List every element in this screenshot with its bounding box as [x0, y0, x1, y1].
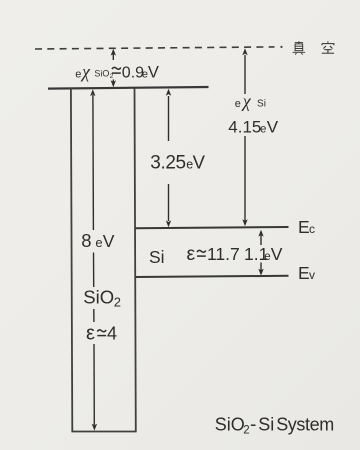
svg-text:2: 2	[110, 73, 114, 80]
svg-text:3.25: 3.25	[150, 152, 185, 173]
svg-text:SiO: SiO	[83, 287, 114, 308]
svg-text:V: V	[271, 244, 283, 264]
svg-text:e: e	[264, 251, 270, 263]
svg-text:i: i	[264, 99, 266, 110]
svg-text:c: c	[309, 222, 315, 236]
svg-text:χ: χ	[80, 62, 91, 82]
svg-text:χ: χ	[241, 91, 252, 111]
svg-text:0.9: 0.9	[122, 65, 144, 82]
svg-text:e: e	[95, 235, 102, 250]
svg-text:V: V	[148, 64, 159, 82]
svg-text:e: e	[260, 124, 266, 136]
svg-text:2: 2	[114, 295, 121, 310]
svg-text:Si: Si	[149, 247, 165, 267]
svg-text:E: E	[298, 263, 310, 283]
svg-text:8: 8	[81, 230, 91, 251]
svg-text:v: v	[309, 268, 315, 282]
svg-text:SiO: SiO	[215, 415, 245, 435]
svg-text:V: V	[193, 151, 206, 172]
svg-text:2: 2	[243, 425, 249, 437]
svg-text:V: V	[267, 118, 279, 137]
svg-text:O: O	[102, 69, 109, 79]
svg-text:-: -	[250, 415, 256, 436]
svg-text:11.7: 11.7	[207, 244, 240, 264]
svg-text:E: E	[298, 217, 310, 237]
svg-text:e: e	[235, 98, 241, 110]
svg-text:ε: ε	[187, 243, 196, 265]
svg-text:V: V	[103, 231, 115, 251]
svg-text:ε: ε	[86, 323, 95, 345]
svg-text:Si: Si	[258, 415, 274, 435]
svg-text:4: 4	[107, 324, 117, 344]
svg-text:System: System	[276, 415, 334, 435]
svg-text:e: e	[75, 69, 81, 81]
svg-text:4.15: 4.15	[228, 118, 261, 137]
